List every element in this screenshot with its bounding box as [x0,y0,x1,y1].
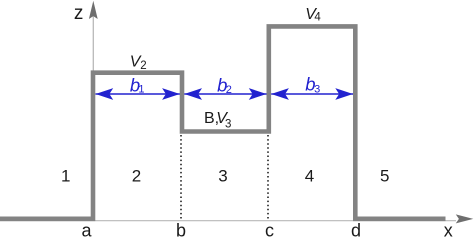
svg-text:3: 3 [225,118,231,130]
svg-text:c: c [265,220,274,240]
svg-text:a: a [81,220,92,240]
svg-text:x: x [444,220,453,240]
svg-text:2: 2 [132,167,141,186]
svg-text:d: d [351,220,361,240]
svg-text:b: b [176,220,186,240]
svg-text:4: 4 [314,11,321,23]
svg-text:1: 1 [138,84,144,96]
svg-text:1: 1 [61,167,70,186]
svg-text:2: 2 [140,60,146,72]
svg-text:2: 2 [226,84,232,96]
svg-text:3: 3 [218,167,227,186]
svg-text:3: 3 [314,83,320,95]
svg-text:5: 5 [380,167,389,186]
svg-text:z: z [74,3,84,24]
svg-text:4: 4 [305,167,314,186]
